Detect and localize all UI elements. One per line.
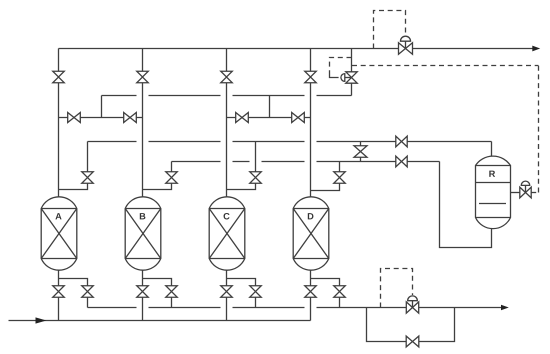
valve bypass manual [406, 336, 419, 347]
arrow feed inlet [36, 317, 47, 323]
valve purge D2 [334, 172, 346, 184]
valve product D [305, 71, 317, 83]
controller box offgas [381, 269, 413, 308]
wire equalization line seg4 [317, 95, 352, 97]
valve feed A [53, 286, 65, 298]
wire feed line [9, 320, 311, 322]
wire product header [59, 48, 533, 50]
wire offgas header seg3 [233, 307, 305, 309]
vessel R [476, 156, 511, 229]
wire signal riser [538, 66, 540, 193]
wire R feed drop [491, 142, 493, 157]
valve crossover CD1 [236, 113, 249, 123]
arrow offgas outlet [501, 305, 509, 311]
valve offgas B [166, 286, 178, 298]
wire R bottom return [440, 162, 492, 248]
wire offgas header seg2 [149, 307, 221, 309]
control valve offgas [406, 296, 418, 313]
wire valve D2 drop [311, 162, 340, 191]
wire purge header1 seg3 [233, 141, 305, 143]
wire crossover C-D [227, 117, 311, 119]
wire valve B2 drop [143, 162, 172, 190]
valve offgas A [82, 286, 94, 298]
valve product A [53, 71, 65, 83]
wire column B riser [142, 49, 144, 198]
wire offgas header seg4 [317, 307, 502, 309]
controller box product [374, 11, 406, 49]
vessel A [41, 197, 77, 270]
valve feed D [305, 286, 317, 298]
valve offgas D [334, 286, 346, 298]
wire controller eq link [330, 73, 339, 78]
wire column A riser [58, 49, 60, 198]
wire equalization line seg3 [233, 95, 305, 97]
valve purge B2 [166, 172, 178, 184]
wire vessel B bottom drop [142, 271, 144, 321]
valve crossover AB1 [68, 113, 81, 123]
wire equalization line seg1 [102, 95, 137, 97]
vessel C [209, 197, 245, 270]
valve product C [221, 71, 233, 83]
wire purge header1 seg1 [88, 141, 137, 143]
wire eq stub AB [101, 96, 103, 118]
wire vessel D bottom drop [310, 271, 312, 321]
valve header1 isolation [396, 136, 407, 147]
valve feed B [137, 286, 149, 298]
wire eq stub CD [269, 96, 271, 118]
wire vessel C bottom drop [226, 271, 228, 321]
valve purge C2 [250, 172, 262, 184]
control valve R outlet [520, 181, 531, 198]
wire vessel D bottom branch [311, 279, 340, 308]
wire offgas header seg1 [88, 307, 137, 309]
wire vessel A bottom branch [59, 279, 88, 308]
control valve equalization [341, 72, 357, 83]
wire purge header2 seg4 [317, 161, 440, 163]
wire equalization line seg2 [149, 95, 221, 97]
wire vessel C bottom branch [227, 279, 256, 308]
wire R outlet [511, 192, 520, 194]
wire crossover A-B [59, 117, 143, 119]
controller box equalization [330, 58, 352, 73]
wire eq control riser [351, 49, 353, 96]
wire interheader stub [360, 142, 362, 162]
wire column D riser [310, 49, 312, 198]
control valve product [399, 36, 413, 54]
vessel D [293, 197, 329, 270]
vessel B [125, 197, 161, 270]
valve crossover AB2 [124, 113, 137, 123]
wire purge header1 seg4 [317, 141, 492, 143]
wire vessel B bottom branch [143, 279, 172, 308]
wire purge header1 seg2 [149, 141, 221, 143]
valve offgas C [250, 286, 262, 298]
valve header2 isolation [396, 156, 407, 167]
valve purge A2 [82, 172, 94, 184]
wire purge header2 seg1 [172, 161, 221, 163]
wire signal run [352, 65, 539, 67]
wire R valve signal tail [531, 192, 538, 194]
wire valve C2 drop [227, 142, 256, 190]
wire vessel A bottom drop [58, 271, 60, 321]
wire bypass loop [367, 308, 455, 342]
valve feed C [221, 286, 233, 298]
wire valve A2 drop [59, 142, 88, 190]
wire purge header2 seg2 [233, 161, 250, 163]
arrow product outlet [532, 46, 540, 52]
valve product B [137, 71, 149, 83]
valve interheader [354, 146, 367, 158]
valve crossover CD2 [292, 113, 305, 123]
wire purge header2 seg3 [262, 161, 305, 163]
wire column C riser [226, 49, 228, 198]
